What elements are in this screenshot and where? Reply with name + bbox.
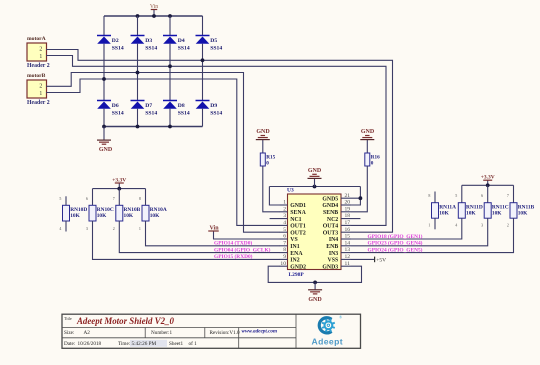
svg-text:7: 7: [507, 193, 509, 198]
svg-text:GND: GND: [256, 129, 270, 135]
svg-text:Header 2: Header 2: [27, 100, 50, 106]
svg-text:21: 21: [345, 193, 351, 199]
svg-text:2: 2: [39, 84, 42, 90]
svg-text:GND1: GND1: [290, 203, 306, 209]
svg-text:IN2: IN2: [290, 258, 299, 264]
svg-text:D9: D9: [210, 103, 217, 109]
svg-text:www.adeept.com: www.adeept.com: [242, 329, 278, 335]
svg-text:12: 12: [345, 254, 351, 260]
svg-text:+5V: +5V: [376, 258, 386, 264]
svg-text:A2: A2: [84, 330, 91, 336]
svg-text:OUT3: OUT3: [323, 230, 339, 236]
svg-text:OUT2: OUT2: [290, 230, 306, 236]
svg-text:9: 9: [283, 254, 286, 260]
svg-text:11: 11: [345, 261, 351, 267]
svg-text:2: 2: [113, 226, 115, 231]
svg-text:GPIO15 (RXD0): GPIO15 (RXD0): [214, 253, 253, 260]
svg-text:4: 4: [59, 226, 61, 231]
svg-text:Size:: Size:: [64, 330, 75, 336]
svg-text:4: 4: [283, 220, 286, 226]
svg-text:D4: D4: [178, 38, 185, 44]
svg-text:7: 7: [283, 240, 286, 246]
svg-text:10/26/2018: 10/26/2018: [78, 341, 102, 347]
svg-text:13: 13: [345, 247, 351, 253]
svg-text:Vin: Vin: [150, 4, 158, 10]
svg-text:5:42:26 PM: 5:42:26 PM: [132, 341, 157, 347]
svg-text:Title: Title: [64, 316, 72, 321]
svg-text:0: 0: [266, 161, 269, 167]
svg-text:7: 7: [113, 196, 115, 201]
svg-text:L298P: L298P: [289, 272, 305, 278]
svg-text:10K: 10K: [150, 213, 160, 219]
svg-text:2: 2: [283, 206, 286, 212]
svg-text:U3: U3: [287, 188, 294, 194]
svg-text:14: 14: [345, 240, 351, 246]
svg-text:RN10A: RN10A: [150, 207, 167, 213]
svg-text:3: 3: [481, 223, 483, 228]
svg-text:OUT4: OUT4: [323, 224, 339, 230]
svg-text:15: 15: [345, 234, 351, 240]
svg-text:RN10C: RN10C: [97, 207, 114, 213]
svg-text:RN11D: RN11D: [466, 205, 483, 211]
svg-text:3: 3: [283, 213, 286, 219]
svg-text:1: 1: [39, 91, 42, 97]
svg-text:SS14: SS14: [145, 45, 157, 51]
svg-text:10: 10: [280, 261, 286, 267]
svg-text:6: 6: [86, 196, 88, 201]
svg-text:2: 2: [507, 223, 509, 228]
svg-text:1: 1: [39, 54, 42, 60]
svg-text:Adeept: Adeept: [312, 337, 344, 347]
svg-text:Number:1: Number:1: [151, 330, 172, 336]
svg-text:8: 8: [428, 193, 430, 198]
svg-text:NC1: NC1: [290, 217, 301, 223]
svg-text:SENB: SENB: [323, 210, 338, 216]
svg-text:5: 5: [455, 193, 457, 198]
svg-text:Revision:V1.0: Revision:V1.0: [210, 330, 241, 336]
svg-text:3: 3: [86, 226, 88, 231]
svg-text:10K: 10K: [124, 213, 134, 219]
svg-text:+3.3V: +3.3V: [112, 177, 126, 183]
svg-text:10K: 10K: [70, 213, 80, 219]
svg-text:5: 5: [283, 227, 286, 233]
svg-text:Date:: Date:: [64, 341, 76, 347]
svg-text:SS14: SS14: [145, 110, 157, 116]
svg-text:®: ®: [339, 315, 342, 320]
svg-text:1: 1: [283, 200, 286, 206]
svg-text:18: 18: [345, 213, 351, 219]
svg-text:D8: D8: [178, 103, 185, 109]
svg-text:VS: VS: [290, 237, 297, 243]
svg-text:ENA: ENA: [290, 251, 303, 257]
svg-text:17: 17: [345, 220, 351, 226]
svg-text:D3: D3: [145, 38, 152, 44]
svg-text:10K: 10K: [439, 211, 449, 217]
svg-text:GND: GND: [308, 168, 322, 174]
svg-text:10K: 10K: [492, 211, 502, 217]
svg-text:6: 6: [283, 234, 286, 240]
svg-text:NC2: NC2: [327, 217, 338, 223]
svg-text:GND5: GND5: [322, 196, 338, 202]
svg-text:OUT1: OUT1: [290, 224, 306, 230]
svg-text:GND: GND: [99, 147, 113, 153]
svg-text:Vin: Vin: [209, 226, 219, 232]
svg-text:motorB: motorB: [27, 73, 46, 79]
svg-text:IN4: IN4: [329, 237, 338, 243]
svg-text:20: 20: [345, 200, 351, 206]
svg-text:SS14: SS14: [210, 45, 222, 51]
svg-text:RN11A: RN11A: [439, 205, 456, 211]
svg-text:16: 16: [345, 227, 351, 233]
svg-text:10K: 10K: [466, 211, 476, 217]
svg-text:5: 5: [59, 196, 61, 201]
svg-text:GPIO04 (GPIO_GCLK): GPIO04 (GPIO_GCLK): [214, 246, 271, 253]
svg-text:SS14: SS14: [112, 45, 124, 51]
svg-text:Sheet1: Sheet1: [169, 341, 184, 347]
svg-text:GND3: GND3: [322, 264, 338, 270]
svg-text:Time:: Time:: [118, 341, 131, 347]
svg-text:RN11C: RN11C: [492, 205, 509, 211]
svg-text:D7: D7: [145, 103, 152, 109]
svg-text:SS14: SS14: [210, 110, 222, 116]
svg-text:IN3: IN3: [329, 251, 338, 257]
svg-text:GND4: GND4: [322, 203, 338, 209]
svg-text:motorA: motorA: [27, 36, 46, 42]
svg-text:RN10D: RN10D: [70, 207, 87, 213]
svg-text:19: 19: [345, 206, 351, 212]
svg-text:10K: 10K: [97, 213, 107, 219]
svg-text:IN1: IN1: [290, 244, 299, 250]
svg-text:GND: GND: [308, 297, 322, 303]
svg-text:6: 6: [481, 193, 483, 198]
svg-text:SS14: SS14: [112, 110, 124, 116]
svg-text:1: 1: [428, 223, 430, 228]
svg-text:4: 4: [455, 223, 457, 228]
svg-text:GND: GND: [361, 129, 375, 135]
svg-text:SS14: SS14: [178, 45, 190, 51]
svg-text:ENB: ENB: [326, 244, 338, 250]
svg-text:SENA: SENA: [290, 210, 306, 216]
svg-text:Header 2: Header 2: [27, 63, 50, 69]
svg-text:8: 8: [283, 247, 286, 253]
svg-text:RN10B: RN10B: [124, 207, 141, 213]
svg-text:D6: D6: [112, 103, 119, 109]
svg-text:2: 2: [39, 47, 42, 53]
svg-text:GPIO18 (GPIO_GEN1): GPIO18 (GPIO_GEN1): [368, 233, 423, 240]
svg-text:of 1: of 1: [189, 340, 198, 347]
svg-text:+3.3V: +3.3V: [481, 175, 495, 181]
svg-text:D2: D2: [112, 38, 119, 44]
svg-text:GND2: GND2: [290, 264, 306, 270]
svg-text:D5: D5: [210, 38, 217, 44]
svg-text:SS14: SS14: [178, 110, 190, 116]
svg-text:GPIO14 (TXD0): GPIO14 (TXD0): [214, 240, 252, 247]
svg-text:VSS: VSS: [328, 258, 339, 264]
svg-text:GPIO24 (GPIO_GEN5): GPIO24 (GPIO_GEN5): [368, 246, 423, 253]
svg-text:1: 1: [139, 226, 141, 231]
svg-text:10K: 10K: [518, 211, 528, 217]
svg-text:RN11B: RN11B: [518, 205, 535, 211]
svg-text:GPIO23 (GPIO_GEN4): GPIO23 (GPIO_GEN4): [368, 240, 423, 247]
svg-text:Adeept Motor Shield V2_0: Adeept Motor Shield V2_0: [76, 316, 174, 326]
svg-text:0: 0: [371, 161, 374, 167]
svg-text:8: 8: [139, 196, 141, 201]
